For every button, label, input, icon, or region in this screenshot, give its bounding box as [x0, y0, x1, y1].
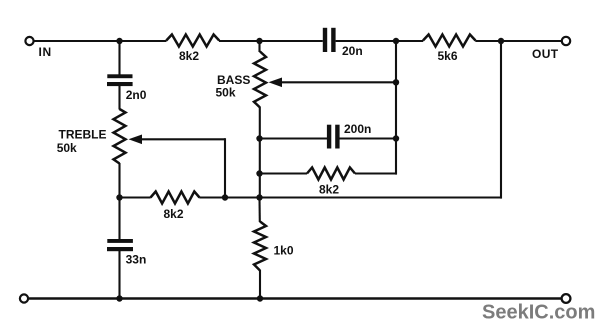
resistor 5k6 [423, 35, 476, 47]
svg-text:SeekIC.com: SeekIC.com [482, 302, 595, 324]
svg-text:1k0: 1k0 [274, 244, 294, 258]
wire mid 8k2 right lead [355, 172, 396, 174]
svg-text:50k: 50k [216, 86, 236, 100]
wire 1k0 top lead [258, 198, 260, 223]
wire left branch treble to 33n [118, 163, 120, 239]
svg-text:20n: 20n [342, 44, 363, 58]
svg-text:5k6: 5k6 [438, 49, 458, 63]
wire bass branch top [258, 41, 260, 52]
node I junction mid 8k2 left [256, 170, 262, 176]
node A junction top-left [116, 38, 122, 44]
node L junction bottom left branch [116, 295, 122, 301]
svg-text:50k: 50k [57, 141, 77, 155]
wire top rail IN to node A [34, 40, 167, 42]
node E junction left mid-wire [116, 194, 122, 200]
svg-text:2n0: 2n0 [126, 88, 147, 102]
wire top rail 5k6 to OUT [475, 40, 561, 42]
wire 200n right lead [339, 137, 396, 139]
wire left branch cap to treble [118, 86, 120, 110]
node K junction bass bottom mid rail [256, 194, 262, 200]
wire bottom rail [29, 297, 561, 300]
bass wiper arrowhead [269, 78, 283, 88]
wire vertical x396 [395, 41, 397, 175]
wire mid rail right segment [199, 196, 501, 198]
svg-text:200n: 200n [344, 122, 371, 136]
node C junction x396 top [393, 38, 399, 44]
wire mid 8k2 left lead [260, 172, 308, 174]
resistor 1k0 [254, 222, 266, 271]
node H junction 200n right [393, 135, 399, 141]
wire 200n left lead [260, 137, 328, 139]
wire vertical x501 out branch [500, 41, 502, 199]
resistor 8k2 top [166, 35, 219, 47]
wire treble wiper horizontal [141, 138, 226, 140]
wire top rail node B segment [219, 40, 323, 42]
terminal bottom-left [20, 294, 28, 302]
potentiometer TREBLE 50k element [114, 109, 126, 164]
svg-text:TREBLE: TREBLE [59, 128, 107, 142]
potentiometer BASS 50k element [254, 52, 266, 108]
capacitor 20n [323, 28, 336, 52]
svg-text:8k2: 8k2 [179, 49, 199, 63]
wire bass branch middle [259, 107, 261, 198]
wire bass wiper horizontal [281, 81, 397, 83]
node B junction bass top [256, 38, 262, 44]
wire left branch upper [118, 41, 120, 75]
node G junction 200n left [256, 135, 262, 141]
resistor 8k2 lower [151, 192, 200, 204]
wire treble wiper vertical [224, 138, 226, 197]
terminal bottom-right [562, 294, 571, 303]
terminal IN [25, 37, 33, 45]
svg-text:8k2: 8k2 [319, 183, 339, 197]
treble wiper arrowhead [129, 135, 143, 145]
capacitor 33n [107, 239, 133, 251]
capacitor 2n0 [107, 74, 133, 86]
svg-text:33n: 33n [126, 253, 147, 267]
node D junction out branch [498, 38, 504, 44]
capacitor 200n [327, 125, 340, 149]
wire left branch 33n to bottom rail [118, 251, 120, 299]
node M junction bottom 1k0 [257, 295, 263, 301]
svg-text:IN: IN [39, 45, 52, 59]
terminal OUT [562, 37, 570, 45]
node J junction treble wiper mid rail [222, 194, 228, 200]
wire mid rail left segment [120, 196, 151, 198]
node F junction bass wiper at x396 [393, 79, 399, 85]
svg-text:8k2: 8k2 [164, 207, 184, 221]
wire top rail cap to 5k6 [336, 40, 424, 42]
svg-text:OUT: OUT [532, 47, 559, 61]
wire 1k0 bottom lead [259, 270, 261, 299]
resistor 8k2 middle [307, 168, 355, 180]
